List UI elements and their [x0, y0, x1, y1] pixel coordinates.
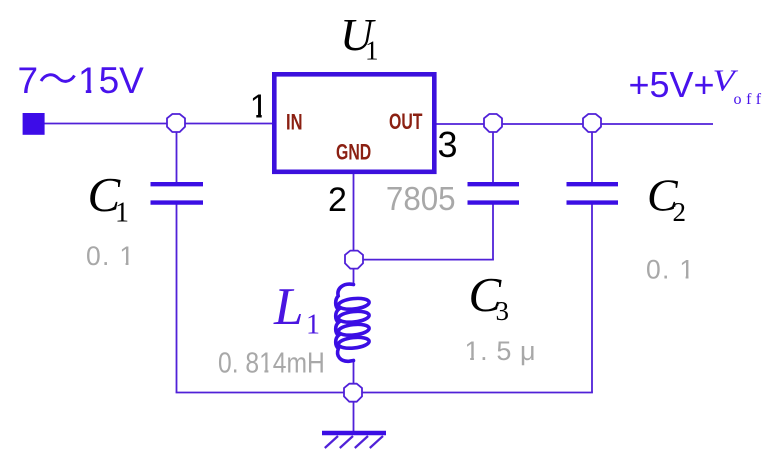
svg-text:1: 1: [250, 88, 268, 125]
svg-text:OUT: OUT: [389, 111, 423, 135]
svg-text:7: 7: [18, 60, 39, 101]
svg-text:2: 2: [328, 181, 347, 219]
svg-text:3: 3: [438, 124, 458, 165]
svg-text:L: L: [273, 278, 303, 336]
svg-text:+5V+: +5V+: [629, 64, 715, 105]
svg-text:GND: GND: [336, 141, 371, 165]
svg-text:1. 5 μ: 1. 5 μ: [465, 336, 537, 366]
svg-text:off: off: [734, 91, 766, 108]
svg-text:0. 1: 0. 1: [86, 241, 135, 271]
svg-text:15V: 15V: [78, 60, 144, 101]
svg-text:0. 1: 0. 1: [646, 255, 695, 285]
svg-text:1: 1: [306, 310, 320, 341]
svg-text:0. 814mH: 0. 814mH: [218, 347, 325, 379]
svg-text:IN: IN: [286, 110, 302, 135]
svg-text:2: 2: [673, 197, 687, 227]
svg-text:1: 1: [115, 198, 129, 229]
svg-text:1: 1: [365, 36, 379, 66]
svg-text:7805: 7805: [386, 180, 456, 217]
svg-text:3: 3: [496, 296, 510, 326]
